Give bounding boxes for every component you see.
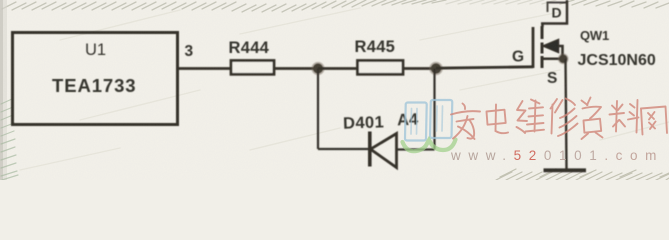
wire R445 to node B xyxy=(403,67,436,70)
wire diode to right riser xyxy=(397,148,435,150)
watermark url www.520101.com xyxy=(450,148,664,163)
char wei xyxy=(517,100,545,134)
pin number 3 xyxy=(185,43,194,60)
resistor R445 xyxy=(358,61,404,75)
top page-edge hatch xyxy=(2,0,669,12)
label JCS10N60 xyxy=(578,52,656,69)
wire bottom horizontal xyxy=(318,148,369,150)
label TEA1733 xyxy=(52,75,136,96)
transistor QW1 drain connection to D box xyxy=(541,0,567,27)
wire pin3 to R444 xyxy=(178,67,231,70)
label U1 xyxy=(85,41,106,59)
label D401 xyxy=(343,113,385,132)
source junction dot xyxy=(558,53,569,64)
wire node B down xyxy=(433,69,435,150)
pin label D box xyxy=(548,3,568,13)
faint diagonal scan streaks xyxy=(20,8,669,170)
wire node A to R445 xyxy=(318,67,357,70)
watermark book icon pages xyxy=(405,100,452,141)
watermark book icon green pages xyxy=(403,140,456,152)
char dian xyxy=(487,105,509,134)
watermark text 家电维修资料网 xyxy=(451,98,667,140)
label R445 xyxy=(355,38,396,56)
wire node B to gate xyxy=(436,67,533,68)
char zi xyxy=(582,98,603,140)
pin label D xyxy=(552,5,562,21)
label A4 xyxy=(397,111,420,130)
label R444 xyxy=(229,39,270,57)
node A junction dot xyxy=(311,62,324,75)
transistor QW1 gate bar xyxy=(532,27,535,68)
transistor QW1 body arrow xyxy=(543,40,563,59)
source terminal bar xyxy=(544,168,587,172)
wire source down xyxy=(566,59,567,169)
wire node A down xyxy=(317,69,319,150)
film grain xyxy=(0,0,669,180)
char wang xyxy=(641,107,667,135)
label QW1 xyxy=(580,28,609,43)
bottom-right page-edge hatch xyxy=(496,169,669,180)
pin label G xyxy=(512,49,524,66)
diode D401 triangle xyxy=(371,134,397,168)
node B junction dot xyxy=(429,62,443,76)
char liao xyxy=(610,100,639,133)
char jia xyxy=(451,104,480,140)
left photo edge shading xyxy=(0,0,7,180)
resistor R444 xyxy=(231,61,274,75)
pin label S xyxy=(547,70,557,87)
IC U1 box xyxy=(13,33,178,125)
transistor QW1 channel segments xyxy=(541,26,544,68)
wire R444 to node A xyxy=(274,67,318,70)
char xiu xyxy=(551,99,578,137)
transistor QW1 source stub xyxy=(544,58,566,61)
diode D401 cathode bar xyxy=(368,132,372,167)
